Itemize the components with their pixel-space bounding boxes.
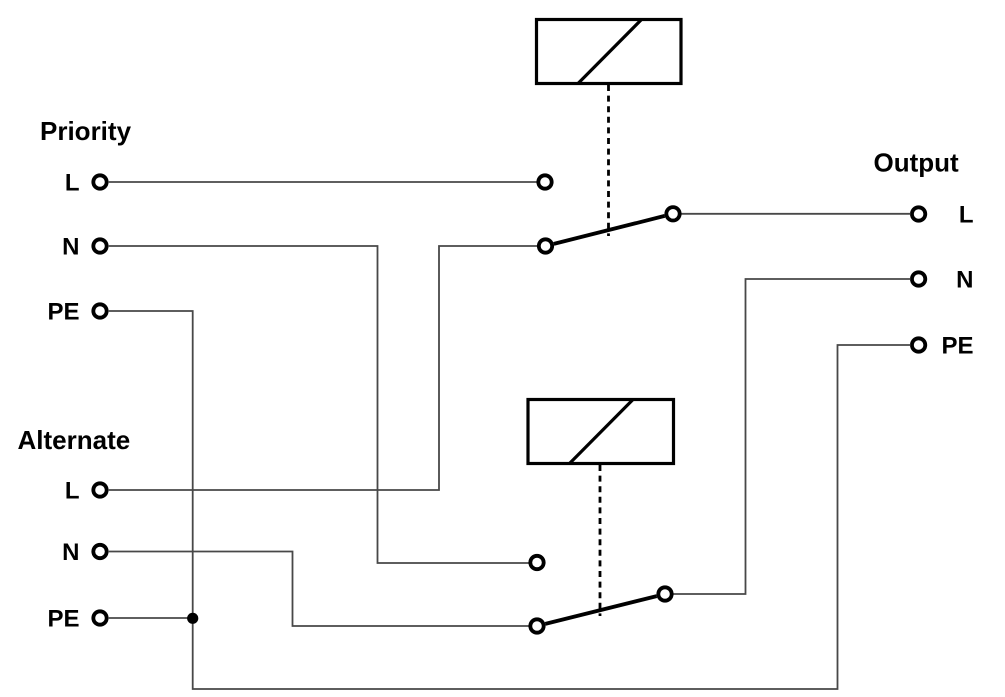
switch S2 blade	[545, 596, 656, 624]
terminal Output N	[912, 272, 925, 285]
switch S1 upper contact	[538, 175, 551, 188]
switch S2 lower contact	[530, 619, 543, 632]
switch S2 common contact	[658, 587, 671, 600]
svg-text:Output: Output	[874, 148, 960, 178]
wire Alternate PE to PE junction	[108, 617, 193, 619]
svg-text:N: N	[62, 234, 79, 261]
terminal Alternate N	[93, 545, 106, 558]
terminal Output PE	[912, 338, 925, 351]
terminal Priority L	[93, 175, 106, 188]
svg-text:L: L	[959, 202, 974, 229]
svg-text:N: N	[62, 539, 79, 566]
wire Alternate N to S2 lower contact	[108, 552, 529, 627]
switch S1 blade	[554, 216, 665, 244]
svg-text:Alternate: Alternate	[18, 425, 131, 455]
terminal Alternate PE	[93, 611, 106, 624]
svg-text:L: L	[65, 170, 80, 197]
terminal Priority N	[93, 239, 106, 252]
wire Priority PE to Output PE	[108, 311, 911, 689]
svg-text:N: N	[956, 267, 973, 294]
dashed actuator link K1	[607, 85, 610, 236]
terminal Alternate L	[93, 483, 106, 496]
wire Priority L to S1 upper contact	[108, 181, 537, 183]
terminal Priority PE	[93, 304, 106, 317]
switch S1 common contact	[666, 207, 679, 220]
wire S2 common to Output N	[673, 279, 911, 594]
wire S1 common to Output L	[681, 213, 911, 215]
svg-text:L: L	[65, 478, 80, 505]
svg-text:PE: PE	[47, 606, 79, 633]
svg-text:PE: PE	[941, 333, 973, 360]
relay coil K1	[537, 20, 682, 84]
wire Priority N to S2 upper contact	[108, 246, 529, 563]
dashed actuator link K2	[599, 465, 602, 616]
switch S2 upper contact	[530, 556, 543, 569]
terminal Output L	[912, 207, 925, 220]
wire Alternate L to S1 lower contact	[108, 246, 538, 490]
junction PE node	[187, 613, 198, 624]
relay coil K2	[528, 400, 674, 464]
svg-text:Priority: Priority	[40, 116, 132, 146]
svg-text:PE: PE	[47, 299, 79, 326]
switch S1 lower contact	[539, 239, 552, 252]
